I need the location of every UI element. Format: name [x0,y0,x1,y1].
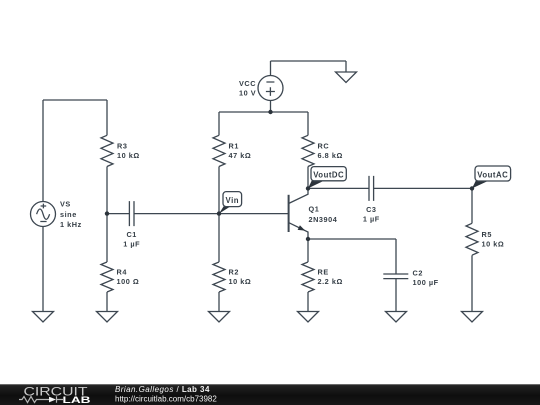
svg-text:VoutDC: VoutDC [313,170,344,179]
label VS value 1 kHz [60,220,82,229]
svg-text:C3: C3 [366,205,376,214]
resistor R3 [101,135,113,166]
wire R4 top lead [106,214,108,262]
wire RE top lead [307,239,309,262]
svg-text:2N3904: 2N3904 [309,215,338,224]
svg-text:6.8 kΩ: 6.8 kΩ [318,151,343,160]
label RE value 2.2 kΩ [318,277,343,286]
label RE [318,268,329,277]
node emitter junction [306,237,310,241]
label VCC value 10 V [239,89,256,98]
wire R3 bottom lead to node A [106,167,108,214]
label R4 [117,268,128,277]
label C1 value 1 µF [123,239,140,248]
wire base of Q1 [219,213,289,215]
ground (VCC negative) [336,72,357,83]
label R3 [117,142,127,151]
svg-text:R5: R5 [482,230,492,239]
flag VoutDC [308,167,346,189]
label VS type sine [60,210,77,219]
wire C1 to node Vin [134,213,219,215]
CircuitLab logo wordmark CIRCUIT [24,385,89,399]
wire VCC top lead [270,61,272,76]
resistor R1 [213,135,225,166]
svg-text:100 µF: 100 µF [413,278,439,287]
svg-text:C2: C2 [413,268,423,277]
wire C2 top lead [395,239,397,274]
wire C2 bottom lead [395,279,397,312]
svg-text:Q1: Q1 [309,205,320,214]
node VoutDC junction (collector) [306,186,310,190]
label R5 value 10 kΩ [482,240,505,249]
wire VCC bottom lead [270,101,272,113]
svg-text:RC: RC [318,142,330,151]
node A junction (R3/R4/C1) [105,211,109,215]
wire R1 bottom lead to node Vin [218,167,220,214]
capacitor C3 [369,176,374,201]
label C1 [126,230,136,239]
transistor Q1 [289,188,308,239]
wire VS bottom lead [42,227,44,312]
wire top-left rail VS to R3 [43,99,107,101]
wire emitter row to C2 [308,238,396,240]
svg-text:47 kΩ: 47 kΩ [229,151,252,160]
label RC [318,142,330,151]
node junction VCC rail [268,110,272,114]
ground (RE) [298,312,319,323]
svg-text:10 kΩ: 10 kΩ [229,277,252,286]
label R2 [229,268,239,277]
wire R2 top lead [218,214,220,262]
label R1 value 47 kΩ [229,151,252,160]
wire RC bottom lead to node VoutDC [307,167,309,189]
ground (R2) [209,312,230,323]
label R5 [482,230,492,239]
node VoutAC junction [470,186,474,190]
resistor R2 [213,262,225,292]
label R3 value 10 kΩ [117,151,140,160]
wire R5 bottom lead [471,255,473,311]
svg-text:R3: R3 [117,142,127,151]
svg-text:2.2 kΩ: 2.2 kΩ [318,277,343,286]
svg-text:R1: R1 [229,142,239,151]
wire R4 bottom lead [106,292,108,312]
svg-text:VoutAC: VoutAC [477,171,508,180]
ground (VS) [33,312,54,323]
label R4 value 100 Ω [117,277,140,286]
wire VCC to ground rail [271,60,347,62]
svg-text:C1: C1 [126,230,136,239]
resistor RE [302,262,314,292]
svg-text:VCC: VCC [239,79,256,88]
svg-text:R2: R2 [229,268,239,277]
svg-text:R4: R4 [117,268,128,277]
capacitor C2 [383,274,408,279]
ground (R5) [462,312,483,323]
node Vin junction [217,211,221,215]
wire VS top lead [42,100,44,202]
flag VoutAC [472,166,511,188]
label R2 value 10 kΩ [229,277,252,286]
label VS [60,200,71,209]
svg-text:Brian.Gallegos / Lab 34: Brian.Gallegos / Lab 34 [115,385,210,394]
wire RC top lead [307,112,309,135]
wire VCC supply rail [219,111,308,113]
svg-text:VS: VS [60,200,71,209]
wire C3 to node VoutAC [374,187,472,189]
voltage source VCC [258,76,283,101]
svg-text:100 Ω: 100 Ω [117,277,140,286]
svg-text:10 V: 10 V [239,89,256,98]
label RC value 6.8 kΩ [318,151,343,160]
label Q1 [309,205,320,214]
wire R3 top lead [106,100,108,135]
label C2 value 100 µF [413,278,439,287]
svg-text:1 kHz: 1 kHz [60,220,82,229]
wire R2 bottom lead [218,292,220,312]
wire collector row to C3 [308,187,369,189]
footer bar [0,384,540,405]
svg-text:10 kΩ: 10 kΩ [482,240,505,249]
wire R1 top lead [218,112,220,135]
svg-text:1 µF: 1 µF [363,215,380,224]
svg-text:Vin: Vin [226,196,240,205]
label Q1 part 2N3904 [309,215,338,224]
label C2 [413,268,423,277]
svg-text:sine: sine [60,210,77,219]
label C3 value 1 µF [363,215,380,224]
CircuitLab logo wordmark LAB [63,395,92,405]
wire node A to C1 [107,213,129,215]
footer credit line [115,385,210,394]
resistor RC [302,135,314,166]
svg-text:10 kΩ: 10 kΩ [117,151,140,160]
svg-text:LAB: LAB [63,395,92,405]
capacitor C1 [129,201,134,226]
ground (C2) [386,312,407,323]
CircuitLab logo resistor zigzag and diode [19,396,63,402]
flag Vin [219,192,242,214]
wire RE bottom lead [307,292,309,312]
label VCC [239,79,256,88]
svg-text:1 µF: 1 µF [123,239,140,248]
footer url line [115,394,217,403]
ground (R4) [97,312,118,323]
svg-text:RE: RE [318,268,329,277]
wire R5 top lead [471,188,473,223]
label C3 [366,205,376,214]
resistor R5 [466,223,478,255]
wire ground stub [345,61,347,72]
voltage source VS sine [31,202,56,227]
resistor R4 [101,262,113,292]
label R1 [229,142,239,151]
svg-text:http://circuitlab.com/cb73982: http://circuitlab.com/cb73982 [115,394,217,403]
